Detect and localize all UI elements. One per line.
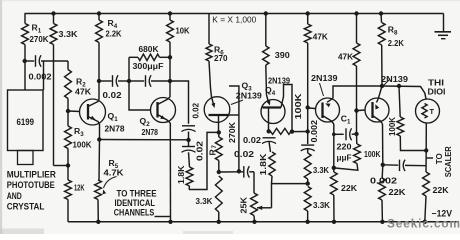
transistor Q3 [204,97,230,123]
svg-text:390: 390 [275,50,290,60]
transistor Q1 [80,99,106,125]
wire output column [425,151,427,173]
wire Q5 base [308,107,316,110]
svg-text:TO: TO [435,153,444,165]
wire 3.3K to R3 node [54,165,69,167]
resistor R7 270K [218,132,220,137]
node top rail 3.3K [51,11,55,15]
svg-text:1.8K: 1.8K [258,154,268,176]
svg-text:R1: R1 [32,23,42,35]
svg-text:22K: 22K [433,185,450,195]
capacitor 0.02 pot coupling [243,166,245,178]
svg-text:2N78: 2N78 [142,127,159,137]
svg-text:3.3K: 3.3K [196,196,214,206]
wire Q2 emitter [169,123,171,222]
svg-text:100K: 100K [293,94,303,120]
svg-text:K = X 1,000: K = X 1,000 [212,15,256,24]
thermistor TH1 D101 [416,99,440,123]
svg-text:47K: 47K [313,32,329,42]
node R1-phototube junction [23,59,27,63]
node R7 bottom [217,170,221,174]
resistor 47K Q6 bias [356,14,358,44]
svg-text:0.002: 0.002 [370,176,397,186]
resistor 3.3K lower [304,187,311,212]
wire phototube lead [24,61,26,90]
svg-text:100K: 100K [387,117,397,136]
node 3.3K mid junction [306,181,310,185]
capacitor 0.002 output [383,164,398,166]
node Q1 emitter output [97,137,101,141]
svg-text:680K: 680K [139,44,160,54]
resistor R3 [67,111,69,126]
svg-text:0.02: 0.02 [195,141,205,161]
resistor R1 [24,14,26,24]
node 680K junction [168,55,172,59]
svg-text:300μμF: 300μμF [133,61,164,71]
resistor 22K output [423,172,430,196]
resistor R8 [379,11,383,15]
wire top supply rail [25,13,444,15]
resistor 22K Q5 [333,168,335,172]
svg-text:47K: 47K [75,87,92,97]
wire channels tie [155,216,171,218]
capacitor 0.002 bias [301,144,314,146]
resistor 1.8K divider [189,152,190,167]
scan edge artifacts [0,0,2,234]
wire Q6 collector [382,124,384,165]
capacitor 300uuF feedback [129,80,144,82]
svg-text:Seekic.com: Seekic.com [387,217,460,231]
resistor 100K mid [356,134,358,144]
svg-text:2N139: 2N139 [381,74,408,84]
wire TH1 bottom [425,123,427,151]
svg-text:0.02: 0.02 [103,90,122,100]
resistor 3.3K upper [307,149,309,153]
resistor 10K [168,11,172,15]
svg-text:2.2K: 2.2K [106,29,123,39]
svg-text:AND: AND [7,191,22,201]
resistor 100K Q4 feedback [271,128,292,134]
svg-text:4.7K: 4.7K [104,168,125,178]
svg-text:1.8K: 1.8K [176,166,186,185]
wire 100K to 47K column [292,131,308,133]
wire Q5 collector [333,124,335,168]
node 3.3K rail [217,220,221,224]
svg-text:SCALER: SCALER [444,146,453,177]
node Q4 collector [267,129,271,133]
resistor 100K output [399,86,400,117]
svg-text:0.002: 0.002 [309,120,319,143]
svg-text:7: 7 [211,145,218,149]
node 22K Q5 rail [332,220,336,224]
capacitor 0.02 interstage [99,80,112,82]
node R5 bottom rail [96,220,100,224]
svg-text:6199: 6199 [17,117,35,127]
node Q6 base tap [354,108,358,112]
resistor R2 [67,61,69,70]
svg-text:2N139: 2N139 [236,91,262,101]
node R8 emitter junction [380,84,384,88]
wire divider mid [188,132,190,147]
node R4 bottom [97,79,101,83]
wire bias column mid [307,108,309,145]
node 47K2 rail [354,11,358,15]
svg-text:R8: R8 [388,25,398,37]
node C1 right [354,132,358,136]
wire R7 tap [219,171,243,173]
capacitor 0.02 lower divider [182,146,195,148]
wire emitter bus to thermistor [382,86,426,99]
capacitor C1 220uuF [334,133,344,135]
resistor 3.3K Q3 load [215,176,222,212]
leader Q3 label [231,100,243,105]
wire feedback left leg [128,57,130,81]
node 25K rail [252,220,256,224]
transistor Q4 [261,100,285,124]
capacitor 0.02 Q4 [263,137,276,139]
pointer arc to channels note [104,177,117,189]
capacitor 0.02 upper divider [182,125,195,127]
resistor 1.8K Q4 [269,152,275,176]
node 100K right [290,129,294,133]
svg-text:DIOI: DIOI [428,88,446,97]
resistor R4 [97,11,101,15]
svg-text:THI: THI [428,79,444,88]
wire Q2 collector [169,57,171,97]
resistor 12K [67,166,69,181]
node Q2 collector feedback [168,79,172,83]
svg-text:CRYSTAL: CRYSTAL [7,202,45,212]
svg-text:270K: 270K [30,34,50,44]
node 100K feed [306,129,310,133]
wire 1.8K tap [272,183,308,185]
svg-text:270K: 270K [228,122,237,143]
node Q1 base [66,109,70,113]
svg-text:μμF: μμF [337,152,352,162]
wire Q5 emitter top [333,86,382,98]
svg-text:MULTIPLIER: MULTIPLIER [7,170,56,180]
wire Q1 base lead [68,110,80,113]
wire Q4 base loop [281,85,292,132]
svg-text:0.02: 0.02 [243,135,261,145]
node C1 tap [332,133,336,137]
node 3.3K lower rail [305,220,309,224]
svg-text:2N139: 2N139 [311,73,338,83]
wire divider return [189,132,219,189]
node 100K right top [397,84,401,88]
transistor Q5 [316,98,340,122]
svg-text:3.3K: 3.3K [313,200,331,210]
wire scaler tap [426,157,433,159]
node Q6 collector junction [381,163,385,167]
node Q5 collector junction [332,166,336,170]
svg-text:47K: 47K [338,52,354,62]
node divider tap [186,138,190,142]
svg-text:C1: C1 [341,114,351,126]
resistor 3.3K divider [53,14,55,24]
resistor R5 [95,180,102,200]
svg-text:2.2K: 2.2K [388,38,405,48]
svg-text:R3: R3 [74,126,84,138]
svg-text:3.3K: 3.3K [313,165,330,175]
phototube 6199 box [8,90,44,151]
node R3 bottom junction [66,163,70,167]
wire Q3 base loop [230,114,239,116]
node base loop bottom [237,169,241,173]
svg-text:Q1: Q1 [108,111,119,123]
wire bottom rail [68,221,459,223]
svg-text:0.02: 0.02 [191,103,201,119]
wire Q1 collector [98,81,100,100]
transistor Q2 [151,98,176,123]
svg-text:CHANNELS: CHANNELS [114,207,155,217]
transistor Q6 [365,98,389,122]
svg-text:3.3K: 3.3K [59,29,79,39]
resistor R6 [208,14,210,45]
resistor 390 [265,14,267,47]
wire bias to C1 node [356,111,358,134]
leader Q5 label [320,83,324,96]
phototube base stub [18,151,34,165]
svg-text:22K: 22K [389,187,407,197]
wire collector tap to divider [170,81,189,124]
potentiometer 25K [253,172,255,193]
svg-text:0.02: 0.02 [234,149,254,159]
svg-text:2N78: 2N78 [105,124,125,134]
wiper arrow 25K [257,206,262,210]
svg-text:0.002: 0.002 [29,72,52,82]
svg-text:10K: 10K [176,26,191,36]
svg-text:PHOTOTUBE: PHOTOTUBE [7,180,55,190]
resistor 22K Q6 [381,165,384,178]
node Q2 base feed [127,79,131,83]
node Q5 base tap [306,105,310,109]
svg-text:100K: 100K [73,140,93,150]
svg-text:R: R [208,149,218,156]
svg-text:270: 270 [214,53,228,63]
wire emitter output bus [99,139,188,141]
capacitor 0.002 input [25,60,34,62]
node 22K Q6 rail [380,220,384,224]
node 22K output rail [423,220,427,224]
node 47K rail [306,11,310,15]
svg-text:22K: 22K [341,183,358,193]
wire Q1 emitter [98,124,101,180]
svg-text:12K: 12K [74,183,85,193]
resistor 47K bias [307,14,309,25]
node 390 rail [264,11,268,15]
node Q3 collector [217,130,221,134]
wire phototube anode lead [43,61,45,90]
wire Q6 base [357,109,366,112]
wire Q2 base [129,81,151,110]
node TH1 bottom junction [424,148,428,152]
node Q2 emitter rail [168,220,172,224]
svg-text:25K: 25K [239,197,249,214]
resistor 680K feedback [129,56,138,58]
svg-text:220: 220 [337,141,352,151]
svg-text:T: T [430,107,435,116]
ground [443,14,445,32]
svg-text:100K: 100K [364,149,381,159]
